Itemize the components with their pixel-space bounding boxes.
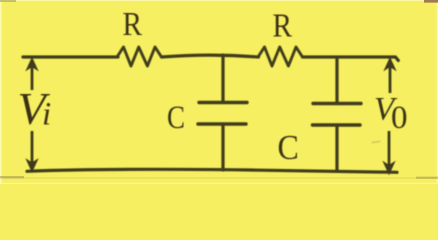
resistor R1 — [117, 47, 162, 66]
capacitor C2 plates — [313, 104, 362, 126]
wire bottom — [27, 169, 397, 172]
V0 up arrow — [385, 58, 396, 93]
wire top-middle segment — [162, 55, 259, 57]
wire top-right segment — [303, 57, 399, 61]
Vi up arrow — [27, 58, 38, 90]
resistor R2 — [258, 47, 303, 66]
wire capacitor C2 bottom stem — [335, 125, 338, 170]
faint smudge artifact left of V0 down arrow — [371, 141, 380, 144]
wire capacitor C1 bottom stem — [221, 124, 224, 170]
svg-text:C: C — [167, 100, 185, 136]
wire top-left segment — [23, 55, 118, 58]
svg-text:i: i — [42, 97, 51, 133]
wire capacitor C1 top stem — [221, 55, 224, 103]
svg-text:C: C — [278, 128, 299, 167]
svg-text:0: 0 — [391, 100, 408, 136]
svg-text:R: R — [123, 6, 143, 43]
V0 down arrow — [384, 131, 395, 174]
wire capacitor C2 top stem — [335, 57, 338, 104]
svg-text:R: R — [273, 8, 293, 45]
Vi down arrow — [27, 131, 38, 172]
capacitor C1 plates — [198, 103, 247, 125]
